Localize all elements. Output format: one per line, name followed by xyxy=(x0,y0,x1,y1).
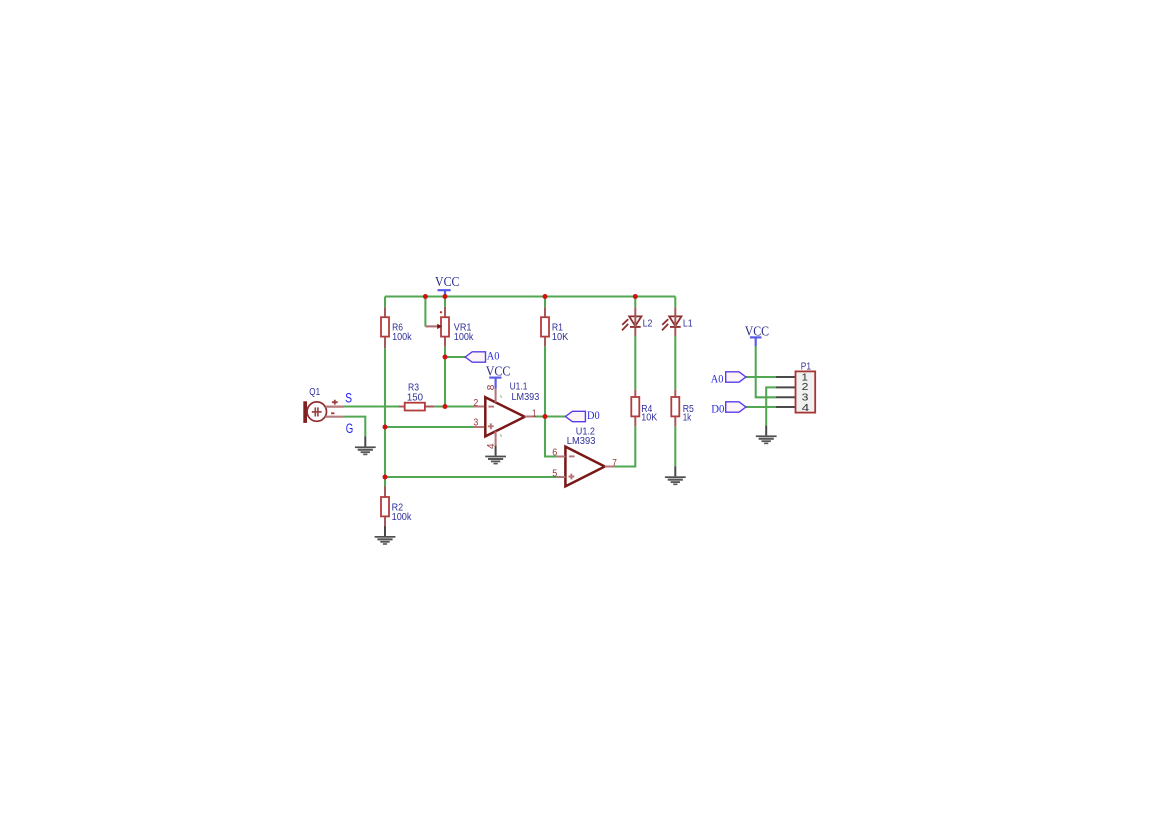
junction node pin3 xyxy=(383,425,388,430)
wire L2 to R4 xyxy=(634,336,636,390)
svg-text:L1: L1 xyxy=(683,318,693,330)
wire VR1 bottom to R3 output row xyxy=(444,347,446,407)
svg-text:100k: 100k xyxy=(454,331,474,343)
wire VR1 wiper drop xyxy=(424,297,426,327)
svg-text:150: 150 xyxy=(407,391,423,403)
svg-text:A0: A0 xyxy=(711,371,724,385)
wire mic minus to ground xyxy=(344,417,365,437)
power flag VCC (top rail) xyxy=(435,274,460,296)
svg-text:4: 4 xyxy=(802,402,810,414)
wire VCC to P1 pin3 xyxy=(756,346,776,397)
svg-text:100k: 100k xyxy=(392,331,412,343)
junction VCC rail / L2 xyxy=(633,294,638,299)
wire L2 top xyxy=(634,297,636,308)
resistor R2 xyxy=(381,487,412,528)
ground (microphone) xyxy=(355,437,376,456)
wire top bus VCC rail xyxy=(385,295,675,297)
wire left column top (bus to R6) xyxy=(384,297,386,308)
port A0 (from VR1 node) xyxy=(465,349,499,363)
junction R3 output node xyxy=(443,404,448,409)
potentiometer VR1 xyxy=(425,307,474,347)
svg-text:Q1: Q1 xyxy=(309,386,320,398)
connector P1 xyxy=(776,360,815,414)
svg-text:6: 6 xyxy=(552,447,557,458)
svg-text:VCC: VCC xyxy=(745,323,770,338)
svg-text:10K: 10K xyxy=(641,411,657,423)
svg-text:1k: 1k xyxy=(683,411,692,423)
svg-text:G: G xyxy=(346,421,354,436)
wire node B down to U1.2 pin5 xyxy=(385,476,557,478)
wire L1 top xyxy=(674,297,676,308)
junction A0 node xyxy=(443,355,448,360)
resistor R6 xyxy=(381,307,412,348)
port A0 (to P1) xyxy=(711,371,746,385)
power flag VCC (P1) xyxy=(745,323,770,346)
ground (R5) xyxy=(665,467,686,486)
resistor R3 xyxy=(399,382,435,411)
svg-text:A0: A0 xyxy=(487,349,500,363)
wire output node down to U1.2 pin6 xyxy=(545,417,557,457)
op-amp U1.1 xyxy=(473,381,539,450)
junction VCC rail / wiper xyxy=(423,294,428,299)
LED L1 xyxy=(662,307,693,336)
svg-text:5: 5 xyxy=(552,468,557,479)
svg-text:100k: 100k xyxy=(392,511,413,523)
junction VCC rail / VR1 xyxy=(443,294,448,299)
svg-text:P1: P1 xyxy=(801,360,811,372)
svg-text:LM393: LM393 xyxy=(567,435,596,447)
op-amp U1.2 xyxy=(552,425,617,486)
wire VR1 top xyxy=(444,297,446,307)
junction D0 output node xyxy=(543,414,548,419)
wire R5 bottom to ground xyxy=(674,426,676,466)
svg-text:2: 2 xyxy=(473,398,478,409)
svg-text:10K: 10K xyxy=(552,331,568,343)
wire port D0 to P1 pin4 xyxy=(746,406,776,408)
ground (P1 pin2) xyxy=(756,426,777,445)
wire U1.2 out up to R4 xyxy=(614,426,635,466)
svg-text:LM393: LM393 xyxy=(512,391,540,403)
power flag VCC (U1.1 pin8) xyxy=(486,364,511,389)
LED L2 xyxy=(622,307,653,336)
resistor R1 xyxy=(541,307,568,346)
wire R3 to U1.1 pin2 xyxy=(434,405,474,407)
svg-text:D0: D0 xyxy=(587,408,600,422)
wire node to port A0 xyxy=(445,356,466,358)
ground (U1.1 pin4) xyxy=(485,446,506,465)
ground (R2) xyxy=(375,526,396,545)
wire P1 pin2 to ground xyxy=(766,387,776,425)
pin number 4 xyxy=(486,443,497,449)
svg-text:VCC: VCC xyxy=(435,274,460,289)
wire mic S to R3 xyxy=(344,405,399,407)
junction node pin5 xyxy=(383,475,388,480)
svg-text:L2: L2 xyxy=(643,318,653,330)
microphone Q1 xyxy=(303,386,344,423)
pin number 8 xyxy=(486,384,497,390)
resistor R5 xyxy=(671,390,694,427)
wire output node to port D0 xyxy=(536,415,566,417)
wire R1 bottom to output node xyxy=(544,346,546,416)
svg-text:7: 7 xyxy=(612,458,617,469)
wire L1 to R5 xyxy=(674,336,676,390)
wire port A0 to P1 pin1 xyxy=(746,376,776,378)
wire node B to U1.1 pin3 xyxy=(385,426,475,428)
port D0 (comparator output) xyxy=(565,408,599,422)
svg-text:3: 3 xyxy=(473,418,478,429)
svg-text:VCC: VCC xyxy=(486,364,511,379)
resistor R4 xyxy=(631,390,657,427)
svg-text:S: S xyxy=(345,391,352,406)
wire left column (R6 bottom through node A/B to R2) xyxy=(384,348,386,486)
junction VCC rail / R1 xyxy=(543,294,548,299)
wire R1 top xyxy=(544,297,546,308)
svg-text:1: 1 xyxy=(532,409,537,420)
svg-text:D0: D0 xyxy=(711,401,724,415)
port D0 (to P1) xyxy=(711,401,746,415)
